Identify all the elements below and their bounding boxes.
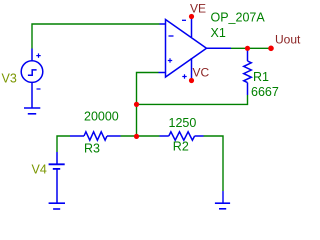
- resistor R1: [244, 48, 252, 95]
- plus sign inside triangle: [168, 58, 172, 62]
- node B junction dot: [134, 134, 139, 139]
- svg-text:OP_207A: OP_207A: [211, 10, 266, 24]
- VE terminal dot: [189, 14, 194, 19]
- svg-text:V3: V3: [2, 71, 17, 85]
- wire R2 to right ground: [204, 136, 224, 191]
- resistor R2: [160, 132, 204, 140]
- wire op-amp output to Uout: [231, 47, 271, 49]
- svg-text:6667: 6667: [251, 85, 279, 99]
- wire op-amp + input to node column: [137, 73, 159, 137]
- VC terminal dot: [189, 78, 194, 83]
- voltage source V3: [21, 49, 43, 109]
- battery V4: [49, 152, 65, 203]
- svg-text:VE: VE: [190, 2, 206, 16]
- svg-text:Uout: Uout: [275, 33, 301, 47]
- svg-text:R3: R3: [84, 141, 100, 155]
- svg-text:20000: 20000: [84, 110, 119, 124]
- svg-text:V4: V4: [32, 163, 47, 177]
- op-amp X1 triangle: [159, 17, 232, 81]
- svg-text:X1: X1: [211, 26, 226, 40]
- svg-text:VC: VC: [193, 66, 210, 80]
- wire V4 corner to R3: [57, 136, 70, 152]
- svg-text:R1: R1: [253, 70, 269, 84]
- output junction dot: [245, 46, 250, 51]
- svg-text:1250: 1250: [169, 116, 197, 130]
- ground at right (below R2 wire): [215, 191, 230, 209]
- minus sign at VE pin: [182, 19, 186, 21]
- minus sign inside triangle: [169, 35, 174, 37]
- node A junction dot: [134, 102, 139, 107]
- wire from V3 top to op-amp inverting input: [32, 24, 160, 49]
- wire R3 to node B: [121, 135, 160, 137]
- ground under V4: [49, 203, 65, 209]
- plus sign at VC pin: [182, 74, 186, 78]
- resistor R3: [70, 132, 121, 140]
- svg-text:R2: R2: [173, 139, 189, 153]
- ground under V3: [24, 108, 40, 114]
- Uout terminal dot: [268, 46, 274, 52]
- wire node A to R1 bottom: [137, 95, 248, 104]
